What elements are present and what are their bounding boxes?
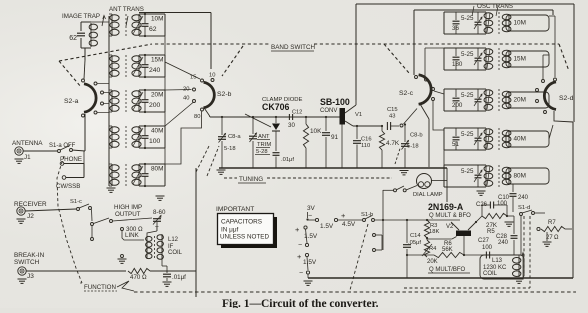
svg-text:100: 100: [497, 201, 508, 207]
svg-text:62: 62: [149, 26, 157, 33]
svg-text:15M: 15M: [514, 56, 526, 63]
svg-text:51: 51: [452, 141, 459, 148]
svg-text:8-60: 8-60: [153, 209, 166, 216]
svg-text:80: 80: [194, 114, 200, 120]
svg-text:240: 240: [518, 195, 529, 201]
svg-text:5-18: 5-18: [407, 144, 419, 150]
svg-text:4.7K: 4.7K: [386, 140, 400, 147]
svg-text:−: −: [308, 213, 312, 220]
svg-text:C16: C16: [361, 137, 372, 143]
svg-text:S1-d: S1-d: [518, 205, 530, 211]
svg-text:CK706: CK706: [262, 102, 289, 112]
svg-text:R4: R4: [429, 246, 437, 252]
svg-text:10K: 10K: [310, 128, 322, 135]
svg-text:15M: 15M: [151, 57, 163, 64]
svg-text:COIL: COIL: [168, 250, 183, 256]
svg-text:5-25: 5-25: [461, 51, 474, 58]
svg-text:S2-c: S2-c: [399, 90, 414, 97]
svg-text:C8-b: C8-b: [410, 133, 423, 139]
svg-text:DIAL LAMP: DIAL LAMP: [413, 192, 443, 198]
svg-text:4.5V: 4.5V: [342, 221, 356, 228]
svg-text:5-25: 5-25: [461, 92, 474, 99]
svg-text:20K: 20K: [427, 259, 438, 265]
svg-text:40: 40: [183, 96, 189, 102]
svg-text:27K: 27K: [486, 222, 498, 229]
svg-text:40M: 40M: [514, 136, 526, 143]
svg-text:240: 240: [498, 240, 509, 246]
svg-text:L13: L13: [492, 258, 503, 264]
svg-text:S1-c: S1-c: [70, 199, 82, 205]
svg-text:91: 91: [331, 134, 339, 141]
svg-text:62: 62: [69, 35, 77, 42]
svg-text:−: −: [299, 270, 303, 277]
svg-text:36: 36: [452, 25, 459, 32]
svg-text:V1: V1: [355, 112, 362, 118]
svg-text:5-28: 5-28: [256, 149, 268, 155]
svg-text:80M: 80M: [514, 173, 526, 180]
svg-text:C12: C12: [292, 110, 302, 116]
svg-text:L12: L12: [168, 237, 179, 243]
svg-text:TUNING: TUNING: [239, 176, 263, 183]
svg-text:R5: R5: [487, 229, 495, 235]
svg-text:OUTPUT: OUTPUT: [115, 211, 141, 218]
svg-text:470: 470: [130, 274, 141, 281]
svg-text:20M: 20M: [151, 92, 163, 99]
svg-text:18K: 18K: [429, 229, 439, 235]
svg-text:C27: C27: [478, 238, 490, 244]
svg-text:IMPORTANT: IMPORTANT: [216, 206, 254, 213]
svg-text:20: 20: [183, 87, 189, 93]
svg-text:S1-a OFF: S1-a OFF: [49, 143, 76, 149]
svg-text:40M: 40M: [151, 128, 163, 135]
svg-text:.01μf: .01μf: [172, 274, 186, 281]
svg-text:OSC TRANS: OSC TRANS: [477, 3, 513, 10]
svg-text:+: +: [295, 225, 300, 234]
svg-text:CW/SSB: CW/SSB: [56, 183, 80, 190]
svg-text:Ω: Ω: [554, 235, 559, 241]
svg-text:S2-b: S2-b: [217, 91, 232, 98]
svg-text:S1-b: S1-b: [361, 212, 373, 218]
svg-text:10M: 10M: [151, 16, 163, 23]
svg-text:43: 43: [389, 114, 395, 120]
svg-text:CAPACITORS: CAPACITORS: [221, 219, 262, 226]
svg-text:1.5V: 1.5V: [320, 223, 334, 230]
svg-text:BAND SWITCH: BAND SWITCH: [271, 44, 316, 51]
svg-text:80M: 80M: [151, 166, 163, 173]
svg-text:SB-100: SB-100: [320, 97, 350, 107]
svg-text:S2-d: S2-d: [559, 95, 574, 102]
svg-text:10: 10: [209, 73, 215, 79]
svg-text:100: 100: [149, 138, 161, 145]
svg-text:+: +: [297, 252, 302, 261]
svg-text:200: 200: [149, 102, 161, 109]
svg-text:2N169-A: 2N169-A: [428, 202, 464, 212]
svg-text:1.5V: 1.5V: [304, 233, 318, 240]
svg-text:IN μμf: IN μμf: [221, 227, 239, 234]
svg-text:+: +: [341, 211, 346, 220]
svg-text:ANT TRANS: ANT TRANS: [109, 6, 144, 13]
svg-text:−: −: [298, 242, 302, 249]
svg-text:200: 200: [452, 102, 463, 109]
svg-text:J2: J2: [27, 213, 34, 220]
svg-text:CONV: CONV: [320, 108, 337, 114]
svg-text:ANT: ANT: [258, 134, 270, 140]
svg-text:HIGH IMP: HIGH IMP: [114, 204, 142, 211]
svg-text:110: 110: [361, 143, 370, 149]
svg-text:Q MULT & BFO: Q MULT & BFO: [429, 213, 471, 219]
svg-text:LINK: LINK: [125, 232, 140, 239]
svg-text:R7: R7: [548, 220, 556, 226]
svg-text:5-25: 5-25: [461, 15, 474, 22]
svg-text:30: 30: [288, 122, 295, 129]
svg-text:V2: V2: [446, 224, 454, 230]
svg-text:J3: J3: [27, 273, 34, 280]
svg-text:15: 15: [190, 75, 196, 81]
svg-text:FUNCTION: FUNCTION: [84, 284, 116, 291]
svg-text:.05μf: .05μf: [408, 240, 421, 246]
svg-text:1.5V: 1.5V: [303, 259, 317, 266]
svg-text:BREAK-IN: BREAK-IN: [14, 252, 45, 259]
svg-text:Fig. 1—Circuit of the converte: Fig. 1—Circuit of the converter.: [222, 298, 379, 308]
svg-text:C8-a: C8-a: [228, 134, 241, 140]
svg-text:S2-a: S2-a: [64, 98, 79, 105]
svg-text:5-25: 5-25: [461, 131, 474, 138]
svg-text:240: 240: [149, 67, 161, 74]
svg-text:J1: J1: [24, 154, 31, 161]
svg-text:SWITCH: SWITCH: [14, 259, 40, 266]
svg-text:5-25: 5-25: [461, 168, 474, 175]
svg-text:UNLESS NOTED: UNLESS NOTED: [220, 234, 269, 241]
svg-text:3V: 3V: [307, 205, 316, 212]
svg-text:180: 180: [452, 61, 463, 68]
svg-text:10M: 10M: [514, 20, 526, 27]
svg-text:COIL: COIL: [483, 271, 498, 277]
svg-text:IMAGE TRAP: IMAGE TRAP: [62, 13, 100, 20]
svg-text:20M: 20M: [514, 97, 526, 104]
svg-text:56K: 56K: [442, 247, 453, 253]
svg-text:ANTENNA: ANTENNA: [12, 140, 43, 147]
svg-text:TRIM: TRIM: [257, 142, 271, 148]
svg-text:Ω: Ω: [142, 274, 147, 281]
svg-text:.01μf: .01μf: [281, 157, 294, 163]
svg-text:5-18: 5-18: [224, 146, 236, 152]
svg-text:100: 100: [482, 245, 493, 251]
svg-text:C15: C15: [387, 107, 398, 113]
svg-text:Q MULT/BFO: Q MULT/BFO: [429, 267, 466, 273]
svg-text:C14: C14: [410, 233, 421, 239]
